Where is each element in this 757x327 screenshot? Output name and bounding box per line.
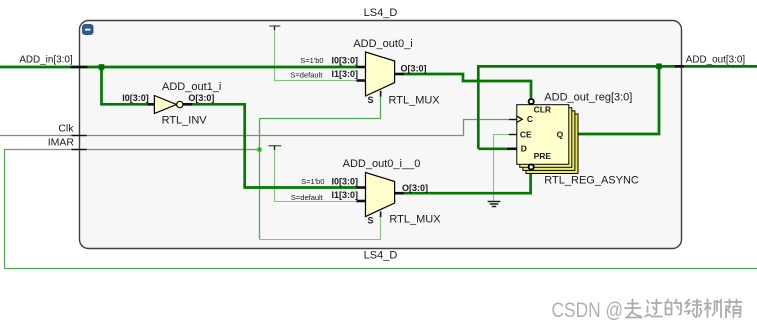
svg-text:ADD_out1_i: ADD_out1_i bbox=[162, 81, 221, 93]
svg-text:IMAR: IMAR bbox=[48, 137, 75, 149]
svg-text:I1[3:0]: I1[3:0] bbox=[331, 190, 358, 200]
svg-text:RTL_MUX: RTL_MUX bbox=[389, 94, 441, 106]
svg-text:LS4_D: LS4_D bbox=[364, 7, 398, 19]
svg-text:LS4_D: LS4_D bbox=[364, 249, 398, 261]
svg-text:CE: CE bbox=[520, 129, 532, 139]
svg-text:ADD_out_reg[3:0]: ADD_out_reg[3:0] bbox=[544, 91, 632, 103]
svg-text:ADD_out0_i: ADD_out0_i bbox=[353, 38, 412, 50]
svg-text:S=default: S=default bbox=[291, 193, 324, 202]
svg-text:S: S bbox=[367, 215, 373, 225]
svg-text:I1[3:0]: I1[3:0] bbox=[331, 69, 358, 79]
svg-text:S: S bbox=[367, 95, 373, 105]
svg-text:O[3:0]: O[3:0] bbox=[188, 93, 214, 103]
svg-text:ADD_in[3:0]: ADD_in[3:0] bbox=[19, 55, 72, 66]
svg-text:D: D bbox=[521, 143, 527, 153]
svg-text:Clk: Clk bbox=[58, 122, 74, 134]
svg-text:RTL_REG_ASYNC: RTL_REG_ASYNC bbox=[544, 174, 639, 186]
svg-text:CSDN @: CSDN @ bbox=[552, 298, 624, 322]
svg-text:I0[3:0]: I0[3:0] bbox=[122, 93, 149, 103]
svg-text:Q: Q bbox=[557, 129, 564, 139]
svg-text:ADD_out[3:0]: ADD_out[3:0] bbox=[686, 54, 746, 65]
svg-text:I0[3:0]: I0[3:0] bbox=[331, 55, 358, 65]
svg-text:RTL_INV: RTL_INV bbox=[162, 114, 208, 126]
svg-text:S=default: S=default bbox=[290, 70, 323, 79]
svg-text:O[3:0]: O[3:0] bbox=[401, 64, 427, 74]
svg-text:I0[3:0]: I0[3:0] bbox=[331, 176, 358, 186]
svg-text:PRE: PRE bbox=[534, 151, 552, 161]
svg-text:CLR: CLR bbox=[534, 105, 551, 115]
svg-text:O[3:0]: O[3:0] bbox=[402, 183, 428, 193]
svg-text:S=1'b0: S=1'b0 bbox=[301, 177, 324, 186]
svg-text:ADD_out0_i__0: ADD_out0_i__0 bbox=[343, 158, 421, 170]
svg-text:RTL_MUX: RTL_MUX bbox=[389, 214, 441, 226]
svg-text:C: C bbox=[527, 114, 533, 124]
svg-text:S=1'b0: S=1'b0 bbox=[300, 56, 323, 65]
